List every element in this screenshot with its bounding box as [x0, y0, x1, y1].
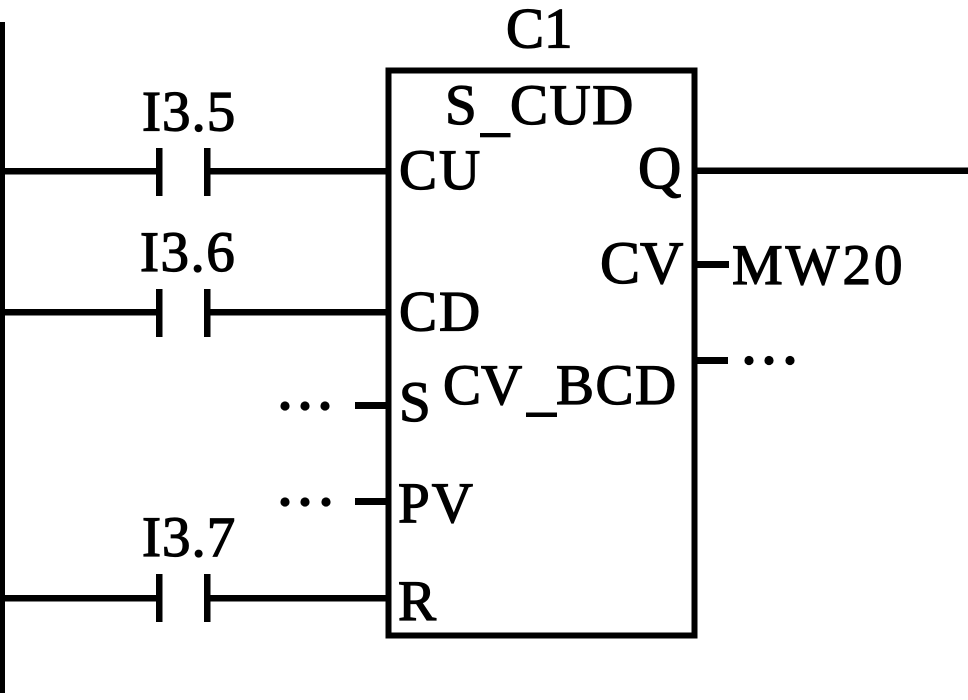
svg-text:C1: C1	[506, 0, 573, 61]
CV_BCD output ellipsis dots	[744, 356, 794, 365]
CV output stub wire	[694, 261, 729, 268]
svg-text:S: S	[445, 74, 477, 137]
svg-text:R: R	[398, 570, 436, 633]
svg-text:CV: CV	[443, 354, 522, 417]
svg-text:I3.7: I3.7	[142, 506, 236, 569]
svg-text:CUD: CUD	[510, 74, 635, 137]
wire rung2 left segment	[0, 309, 156, 316]
svg-text:CV: CV	[600, 230, 683, 296]
PV input ellipsis dots	[280, 497, 330, 506]
wire rung3 right segment to R pin	[210, 595, 391, 602]
contact I3.7 (NO contact bars)	[156, 574, 211, 622]
Q output wire	[694, 168, 968, 175]
wire rung3 left segment	[0, 595, 156, 602]
left power rail	[0, 22, 5, 693]
svg-text:PV: PV	[398, 472, 475, 535]
wire rung2 right segment to CD pin	[210, 309, 391, 316]
CV_BCD underscore	[526, 413, 557, 418]
svg-text:S: S	[399, 371, 431, 434]
svg-text:Q: Q	[638, 135, 681, 201]
S input ellipsis dots	[280, 401, 329, 410]
S input stub wire	[355, 402, 391, 409]
svg-text:CD: CD	[399, 281, 482, 344]
counter box C1 (S_CUD function block)	[389, 71, 695, 636]
PV input stub wire	[355, 498, 391, 505]
wire rung1 right segment to CU pin	[210, 168, 391, 175]
contact I3.6 (NO contact bars)	[156, 289, 211, 337]
svg-text:I3.5: I3.5	[142, 81, 236, 144]
svg-text:MW20: MW20	[732, 234, 905, 297]
svg-text:BCD: BCD	[556, 354, 678, 417]
contact I3.5 (NO contact bars)	[156, 148, 211, 196]
S_CUD underscore	[480, 133, 511, 137]
wire rung1 left segment	[0, 168, 156, 175]
svg-text:I3.6: I3.6	[140, 221, 236, 284]
svg-text:CU: CU	[399, 139, 482, 202]
CV_BCD output stub wire	[694, 357, 728, 364]
